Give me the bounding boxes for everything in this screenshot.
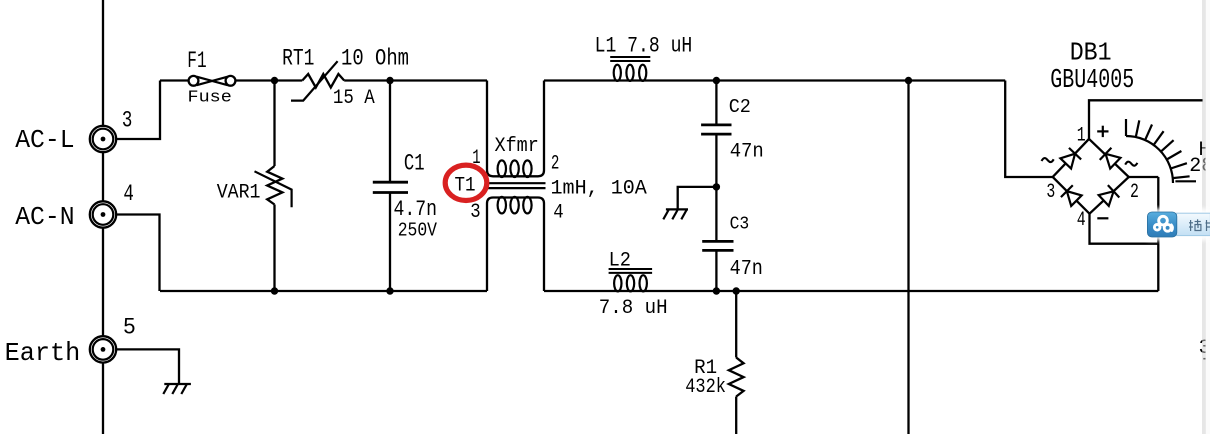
svg-text:15 A: 15 A [333,87,375,110]
svg-text:Earth: Earth [5,338,81,368]
svg-text:2: 2 [551,153,560,176]
svg-text:2: 2 [1130,181,1139,204]
svg-text:4.7n: 4.7n [394,197,438,222]
svg-text:3: 3 [1046,181,1055,204]
svg-text:RT1: RT1 [282,45,314,71]
svg-text:F1: F1 [187,48,206,74]
svg-text:250V: 250V [398,220,437,242]
svg-text:4: 4 [553,201,563,224]
svg-text:C2: C2 [729,96,751,118]
svg-text:L1 7.8 uH: L1 7.8 uH [595,32,693,58]
svg-text:Fuse: Fuse [188,87,232,106]
svg-text:4: 4 [123,181,133,207]
svg-text:47n: 47n [730,140,764,163]
svg-text:432k: 432k [685,376,726,399]
svg-text:C1: C1 [404,150,425,176]
svg-text:4: 4 [1077,209,1086,232]
svg-text:10 Ohm: 10 Ohm [341,45,409,71]
svg-text:3: 3 [470,201,480,224]
svg-text:AC-N: AC-N [15,202,74,232]
svg-text:1: 1 [472,147,480,170]
svg-text:1: 1 [1077,125,1086,148]
svg-text:T1: T1 [455,175,476,198]
svg-text:C3: C3 [730,212,750,234]
svg-text:3: 3 [122,108,132,134]
svg-text:1mH, 10A: 1mH, 10A [551,178,647,201]
svg-text:5: 5 [123,314,136,340]
svg-text:47n: 47n [730,258,763,281]
svg-text:7.8 uH: 7.8 uH [599,297,668,320]
svg-text:L2: L2 [609,250,631,273]
svg-text:DB1: DB1 [1070,38,1112,67]
svg-text:VAR1: VAR1 [217,181,261,204]
svg-text:GBU4005: GBU4005 [1050,66,1134,96]
svg-text:AC-L: AC-L [15,125,74,155]
svg-text:Xfmr: Xfmr [495,135,539,158]
